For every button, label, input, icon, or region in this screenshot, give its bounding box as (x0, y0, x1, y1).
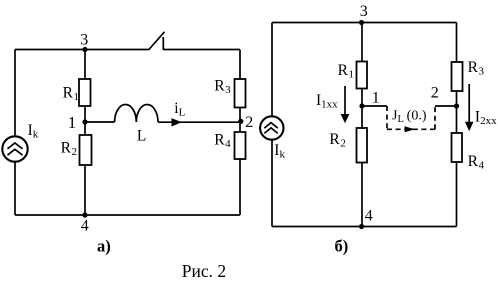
node 1 (circuit a) (82, 119, 87, 124)
wire: bottom wire of circuit b (272, 226, 457, 228)
wire: inductor to node 2 with current arrow (circuit a) (158, 121, 240, 123)
switch post (circuit a) (162, 37, 164, 50)
svg-text:2: 2 (245, 114, 253, 131)
svg-text:а): а) (97, 237, 111, 256)
wire: top wire of circuit a from switch to top-right corner (163, 49, 240, 51)
wire: node 1 stub to dashed branch (circuit b) (362, 105, 387, 107)
svg-text:Рис. 2: Рис. 2 (182, 261, 226, 281)
dashed wire: right vertical of IL(0) path (circuit b) (434, 106, 436, 129)
node 2 (circuit a) (238, 119, 243, 124)
node 3 (circuit b) (359, 20, 364, 25)
resistor R2 (circuit a) (80, 135, 92, 165)
svg-text:L: L (137, 128, 146, 145)
svg-text:4: 4 (365, 208, 373, 225)
svg-text:4: 4 (81, 218, 89, 235)
arrow iL (circuit a) (172, 118, 182, 126)
wire: middle branch of circuit a (node 3 down to node 4) (84, 50, 86, 216)
resistor R1 (circuit a) (79, 79, 91, 106)
svg-text:3: 3 (80, 32, 88, 49)
inductor L (circuit a) (115, 105, 158, 123)
wire: dashed branch to node 2 stub (circuit b) (435, 105, 457, 107)
resistor R3 (circuit b) (452, 62, 463, 91)
node 4 (circuit b) (359, 224, 364, 229)
wire: bottom wire of circuit a (15, 214, 240, 216)
arrow I1xx (circuit b) (341, 86, 350, 123)
wire: left edge of circuit b (current source to bottom-left corner) (271, 140, 273, 227)
wire: right edge of circuit a (top-right corner down to bottom-right corner) (239, 50, 241, 216)
svg-text:1: 1 (372, 90, 380, 107)
svg-text:б): б) (335, 237, 349, 256)
wire: left edge of circuit a (bottom section, from current source to bottom-left corner) (14, 162, 16, 216)
wire: top wire of circuit a from top-left corner to switch (15, 49, 149, 51)
resistor R1 (circuit b) (357, 62, 368, 89)
wire: node 1 to inductor (circuit a) (85, 121, 115, 123)
wire: middle branch of circuit b (node 3 to node 4) (361, 23, 363, 227)
svg-text:2: 2 (431, 85, 439, 102)
switch blade (circuit a) (149, 32, 165, 50)
svg-text:3: 3 (360, 3, 368, 20)
resistor R4 (circuit b) (452, 133, 463, 162)
resistor R4 (circuit a) (235, 132, 246, 159)
node 2 (circuit b) (454, 103, 459, 108)
svg-text:JL (0.): JL (0.) (392, 109, 427, 126)
wire: left edge of circuit a (top section, from top-left corner down to current source) (14, 50, 16, 137)
wire: left edge of circuit b (top section down to current source) (271, 23, 273, 117)
node 1 (circuit b) (359, 103, 364, 108)
arrow I2xx (circuit b) (465, 84, 474, 131)
dashed wire: left vertical of IL(0) path (circuit b) (386, 106, 388, 129)
arrow on dashed IL(0) path (circuit b) (405, 126, 415, 132)
wire: top wire of circuit b (272, 22, 457, 24)
current source Ik (circuit a) (2, 136, 27, 161)
resistor R3 (circuit a) (235, 79, 246, 108)
resistor R2 (circuit b) (357, 128, 368, 163)
svg-text:1: 1 (68, 113, 77, 132)
wire: right edge of circuit b (456, 23, 458, 227)
node 3 (circuit a) (82, 47, 87, 52)
current source Ik (circuit b) (260, 116, 283, 139)
node 4 (circuit a) (82, 212, 87, 217)
dashed wire: horizontal of IL(0) path (circuit b) (387, 128, 435, 130)
